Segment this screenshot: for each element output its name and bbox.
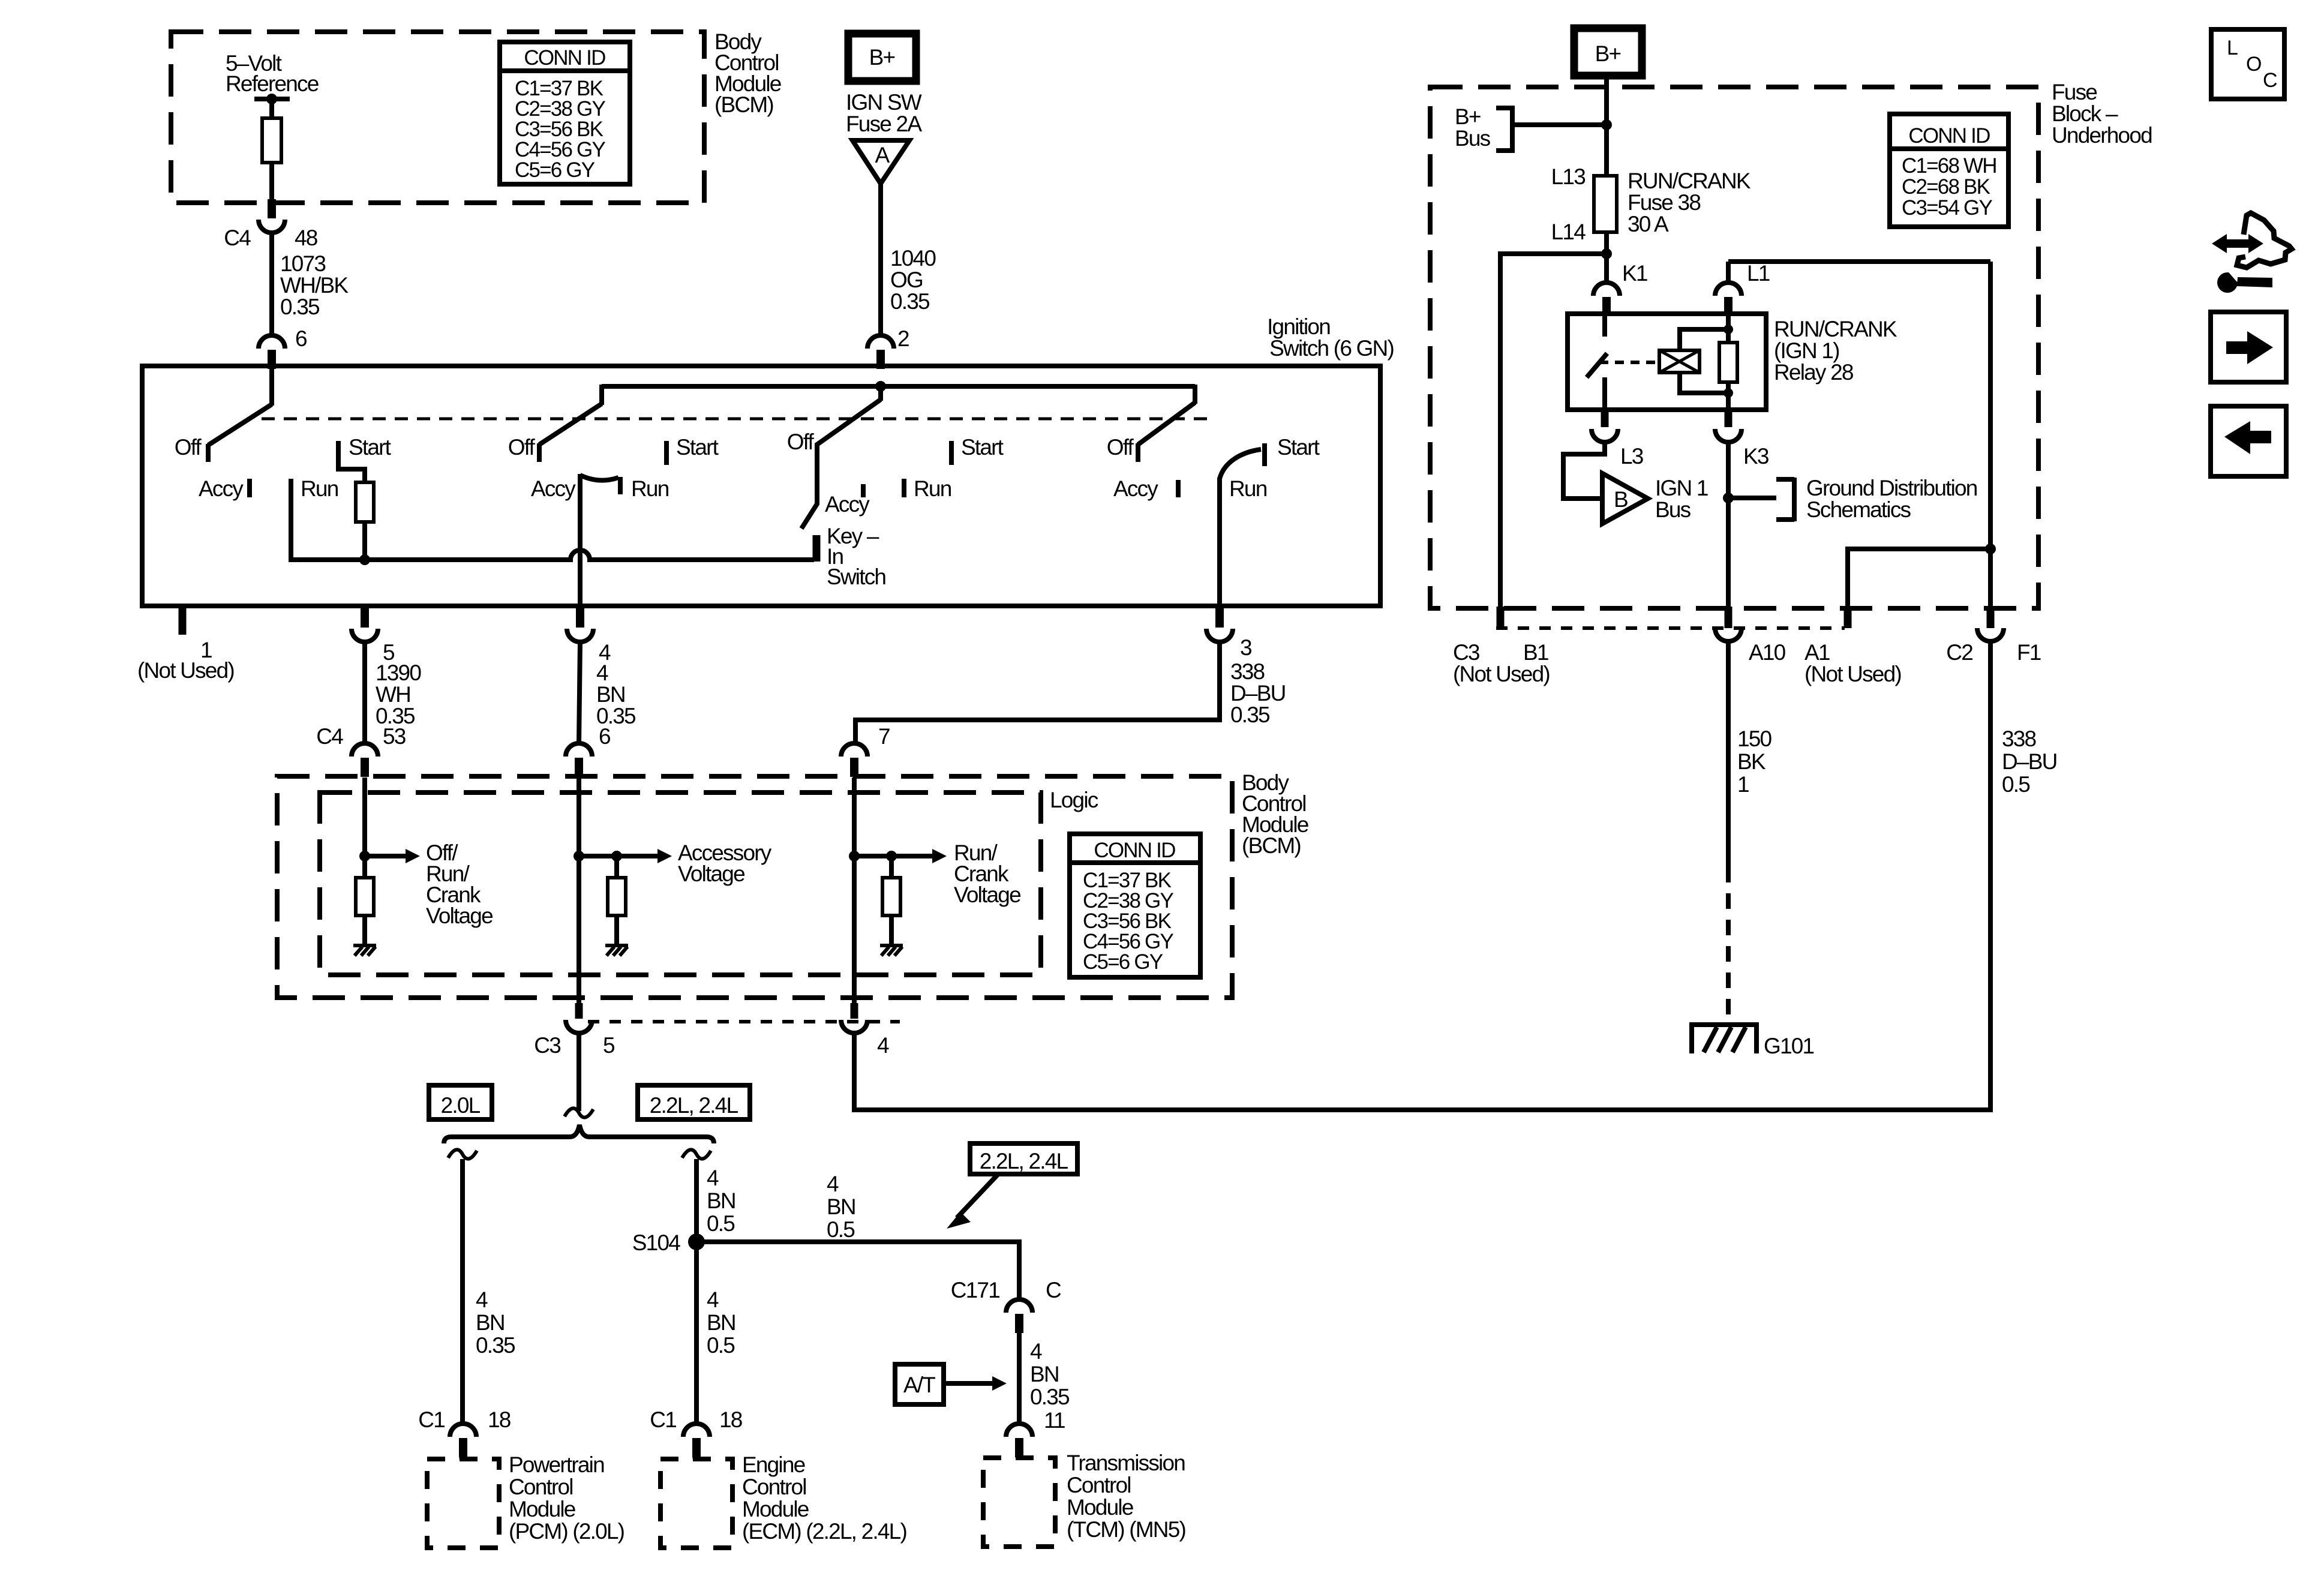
wire K3 to ground distribution flag <box>1728 496 1776 500</box>
wire 4 BN 0.5 to ECM <box>694 1242 699 1424</box>
label C2 <box>1946 640 1972 665</box>
svg-text:Bus: Bus <box>1655 497 1691 522</box>
label C1 / 18 ECM <box>650 1407 741 1432</box>
arrow off/run/crank voltage <box>365 849 420 863</box>
svg-text:4: 4 <box>1030 1339 1042 1364</box>
label Start bank2 <box>676 435 719 460</box>
module box: Transmission Control Module (TCM) (dashed) <box>983 1458 1055 1547</box>
svg-text:11: 11 <box>1044 1408 1065 1433</box>
svg-text:C1: C1 <box>650 1407 676 1432</box>
svg-text:1: 1 <box>1737 772 1749 797</box>
label Off bank1 <box>175 435 202 460</box>
label RUN/CRANK Fuse 38 30 A <box>1628 169 1751 236</box>
connector BCM pin 6 <box>566 743 592 792</box>
svg-text:Voltage: Voltage <box>678 861 744 886</box>
label Fuse Block - Underhood <box>2052 80 2152 148</box>
svg-text:Fuse 2A: Fuse 2A <box>846 112 922 136</box>
svg-text:Transmission: Transmission <box>1067 1451 1185 1475</box>
svg-text:Bus: Bus <box>1455 126 1491 151</box>
label L13 <box>1551 164 1586 189</box>
switch pole bank2 with wiper arc to Run <box>580 474 618 606</box>
wire 4 BN 0.35 to PCM <box>460 1159 465 1424</box>
connector: ignition pin 5 <box>352 608 378 642</box>
svg-text:Run: Run <box>1229 476 1267 501</box>
contact stub Accy bank5 <box>1176 480 1181 497</box>
label Run bank1 <box>301 476 338 501</box>
wire 1390 WH 0.35 <box>362 642 367 744</box>
power symbol B+ (ignition feed) <box>848 34 916 81</box>
relay resistor (parallel) <box>1719 315 1737 410</box>
svg-text:0.5: 0.5 <box>707 1211 735 1236</box>
svg-text:CONN ID: CONN ID <box>524 46 605 70</box>
label pin 4 <box>599 640 611 665</box>
svg-text:2.2L, 2.4L: 2.2L, 2.4L <box>980 1149 1068 1173</box>
svg-text:K1: K1 <box>1622 261 1647 286</box>
svg-text:Accy: Accy <box>531 476 576 501</box>
connector: ignition switch pin 6 <box>259 335 285 369</box>
svg-text:C3: C3 <box>1453 640 1479 665</box>
label Off/Run/Crank Voltage <box>426 840 493 928</box>
brace split to PCM/ECM <box>444 1125 714 1143</box>
wire 4 BN 0.5 to S104 <box>694 1159 699 1242</box>
wire run bus to key-in switch (hop over bank2 pole) <box>291 550 814 560</box>
wire to ground branch1 <box>362 915 367 945</box>
fuse A: IGN SW Fuse 2A (triangle) <box>852 140 909 184</box>
svg-text:IGN 1: IGN 1 <box>1655 476 1708 500</box>
label Run bank2 <box>631 476 669 501</box>
label Engine Control Module (ECM) (2.2L, 2.4L) <box>742 1452 906 1544</box>
svg-text:WH/BK: WH/BK <box>280 273 349 298</box>
svg-text:C2=68 BK: C2=68 BK <box>1902 175 1990 199</box>
svg-text:BN: BN <box>707 1310 735 1335</box>
label Accy bank5 <box>1113 476 1158 501</box>
svg-text:Run: Run <box>301 476 338 501</box>
connector C1 pin 18 (ECM) <box>683 1424 710 1459</box>
contact stub Start bank5 <box>1262 443 1267 466</box>
svg-text:BN: BN <box>476 1310 505 1335</box>
wire Run contact bank1 <box>289 479 293 562</box>
module box: Body Control Module (BCM) top-left (dashed) <box>171 32 704 203</box>
label pin 7 BCM <box>878 724 890 749</box>
label C3 / 5 <box>534 1033 615 1058</box>
label A10 <box>1749 640 1786 665</box>
svg-text:6: 6 <box>599 724 610 749</box>
svg-text:Fuse: Fuse <box>2052 80 2097 104</box>
label Start bank4 <box>961 435 1004 460</box>
label Powertrain Control Module (PCM) (2.0L) <box>509 1452 624 1544</box>
svg-text:53: 53 <box>383 724 406 749</box>
svg-text:BN: BN <box>596 682 625 707</box>
connector C3 pin 5 (BCM bottom) <box>566 975 592 1033</box>
svg-text:(PCM) (2.0L): (PCM) (2.0L) <box>509 1519 624 1544</box>
contact stub Accy bank3 <box>861 484 866 497</box>
contact stub Key-In <box>813 535 821 562</box>
svg-text:C: C <box>1046 1278 1061 1302</box>
label wire 4 BN 0.5 upper <box>707 1166 735 1236</box>
label Off bank5 <box>1107 435 1134 460</box>
label pin 6 <box>295 326 307 351</box>
label A1 (Not Used) <box>1804 640 1901 686</box>
flag bracket ground distribution <box>1776 478 1794 521</box>
splice S104 <box>688 1233 705 1250</box>
svg-text:F1: F1 <box>2017 640 2041 665</box>
label pin 5 <box>383 640 395 665</box>
wire Start elbow to resistor <box>338 465 365 482</box>
label wire 338 D-BU 0.5 <box>2002 727 2057 797</box>
connector K1 (relay) <box>1593 269 1620 316</box>
svg-text:338: 338 <box>1230 659 1265 684</box>
label Logic <box>1050 788 1098 812</box>
svg-text:A/T: A/T <box>903 1373 935 1397</box>
svg-text:Run: Run <box>914 476 951 501</box>
arrow run/crank voltage <box>891 849 947 863</box>
svg-text:O: O <box>2246 53 2261 76</box>
wire S104 to C171 <box>696 1242 1019 1299</box>
svg-text:(BCM): (BCM) <box>714 92 773 117</box>
svg-text:Fuse 38: Fuse 38 <box>1628 190 1700 215</box>
label wire 4 BN 0.35 PCM <box>476 1287 515 1358</box>
svg-text:Powertrain: Powertrain <box>509 1452 604 1477</box>
svg-text:0.35: 0.35 <box>476 1333 515 1358</box>
svg-text:Module: Module <box>742 1497 809 1521</box>
svg-text:Off: Off <box>508 435 536 460</box>
label C1 / 18 PCM <box>418 1407 510 1432</box>
wire 150 BK 1 to G101 <box>1726 641 1731 1021</box>
module box: Body Control Module (BCM) outer (dashed) <box>277 776 1232 998</box>
svg-text:L: L <box>2227 37 2238 59</box>
svg-text:B+: B+ <box>1455 104 1481 129</box>
label wire 338 D-BU 0.35 <box>1230 659 1286 727</box>
svg-text:7: 7 <box>878 724 890 749</box>
power symbol B+ (fuse block feed) <box>1574 28 1642 76</box>
label wire 4 BN 0.35 <box>596 661 636 728</box>
wire 4 BN 0.35 (accessory) <box>579 642 580 744</box>
icon hotlink (arrow, outline, wrench) <box>2212 213 2292 293</box>
label Accy bank2 <box>531 476 576 501</box>
svg-text:C5=6 GY: C5=6 GY <box>1083 950 1163 974</box>
svg-text:RUN/CRANK: RUN/CRANK <box>1774 317 1897 341</box>
connector C1 pin 18 (PCM) <box>450 1424 476 1459</box>
component box: RUN/CRANK (IGN 1) Relay 28 <box>1568 314 1766 410</box>
ground symbol branch3 <box>880 945 903 956</box>
wire B+ into fuse block <box>1604 76 1609 176</box>
squiggle break left branch <box>448 1149 477 1158</box>
svg-text:1073: 1073 <box>280 251 325 276</box>
conn-id table (BCM): CONN ID C1=37 BK C2=38 GY C3=56 BK C4=56 GY C5=6 GY <box>500 42 630 184</box>
svg-text:BN: BN <box>1030 1362 1059 1386</box>
svg-text:BN: BN <box>827 1194 855 1219</box>
switch pole bank5 with wiper arc to Start <box>1220 449 1261 606</box>
svg-text:CONN ID: CONN ID <box>1094 839 1175 862</box>
label 1 (Not Used) <box>137 638 234 683</box>
squiggle break right branch <box>682 1149 711 1158</box>
label box 2.0L <box>429 1085 492 1119</box>
svg-text:2: 2 <box>897 326 909 351</box>
label F1 <box>2017 640 2041 665</box>
label wire 4 BN 0.35 TCM <box>1030 1339 1070 1409</box>
module box: Engine Control Module (ECM) (dashed) <box>660 1459 732 1548</box>
svg-text:C1=68 WH: C1=68 WH <box>1902 154 1996 178</box>
label L1 <box>1747 261 1770 286</box>
svg-text:L14: L14 <box>1551 220 1586 244</box>
label Accy bank3 <box>825 492 870 517</box>
label 48 <box>295 226 317 250</box>
connector A10 <box>1715 607 1742 641</box>
icon box LOC <box>2211 29 2284 99</box>
resistor logic branch1 <box>356 878 374 915</box>
svg-text:B+: B+ <box>1595 41 1621 66</box>
label pin 6 BCM <box>599 724 610 749</box>
relay coil wiring <box>1680 325 1733 398</box>
arrow accessory voltage <box>617 849 672 863</box>
contact stub Start bank2 <box>664 441 669 465</box>
label C4 / 53 <box>316 724 405 749</box>
wire L3 to IGN1 bus flag <box>1563 442 1605 499</box>
svg-text:Control: Control <box>742 1475 806 1499</box>
label Key-In Switch <box>827 524 885 589</box>
icon box forward arrow <box>2211 312 2286 382</box>
wire branch run/crank <box>849 780 860 977</box>
contact stub Start bank4 <box>949 441 954 465</box>
label wire 150 BK 1 <box>1737 727 1772 797</box>
label L14 <box>1551 220 1586 244</box>
svg-text:Logic: Logic <box>1050 788 1098 812</box>
svg-text:(IGN 1): (IGN 1) <box>1774 338 1839 363</box>
label K1 <box>1622 261 1647 286</box>
label Start bank5 <box>1277 435 1320 460</box>
label Run bank4 <box>914 476 951 501</box>
wire 1040 OG 0.35 <box>878 184 883 335</box>
svg-text:Start: Start <box>676 435 719 460</box>
label S104 <box>632 1230 680 1255</box>
squiggle break at split <box>565 1108 593 1117</box>
label L3 <box>1620 444 1643 469</box>
wire from R1 to BCM edge <box>269 163 274 203</box>
svg-text:OG: OG <box>890 268 923 292</box>
label Run/Crank Voltage <box>954 840 1020 907</box>
connector C4 pin 48 (BCM) <box>259 199 285 233</box>
svg-text:3: 3 <box>1240 635 1251 660</box>
label Transmission Control Module (TCM) (MN5) <box>1067 1451 1186 1542</box>
svg-text:0.35: 0.35 <box>280 295 320 319</box>
svg-text:4: 4 <box>596 661 608 685</box>
svg-text:0.35: 0.35 <box>1230 703 1270 727</box>
svg-text:RUN/CRANK: RUN/CRANK <box>1628 169 1751 193</box>
svg-text:1040: 1040 <box>890 246 936 271</box>
label pin 11 <box>1044 1408 1065 1433</box>
svg-text:A1: A1 <box>1804 640 1830 665</box>
connector K3 (relay) <box>1715 410 1742 442</box>
svg-text:Switch (6 GN): Switch (6 GN) <box>1269 336 1394 361</box>
svg-text:Off: Off <box>175 435 202 460</box>
label wire 4 BN 0.5 lower <box>707 1287 735 1358</box>
svg-text:(Not Used): (Not Used) <box>137 658 234 683</box>
svg-text:C4: C4 <box>316 724 343 749</box>
label box 2.2L, 2.4L <box>638 1085 750 1119</box>
wire pin6 into switch <box>269 369 274 406</box>
svg-text:Start: Start <box>1277 435 1320 460</box>
label IGN SW Fuse 2A <box>846 90 922 136</box>
label RUN/CRANK (IGN 1) Relay 28 <box>1774 317 1897 385</box>
wire 338 D-BU 0.35 to BCM pin7 <box>855 642 1220 744</box>
svg-text:Start: Start <box>961 435 1004 460</box>
svg-text:Relay 28: Relay 28 <box>1774 360 1853 385</box>
svg-text:338: 338 <box>2002 727 2036 751</box>
dotted connector line fuse block bottom <box>1496 626 1845 630</box>
stub pin 1 (not used) <box>179 607 187 635</box>
bus bracket B+ Bus <box>1496 108 1512 151</box>
svg-text:K3: K3 <box>1743 444 1768 469</box>
label Ground Distribution Schematics <box>1806 476 1977 522</box>
ground symbol branch2 <box>605 945 628 956</box>
svg-text:WH: WH <box>376 682 410 707</box>
svg-text:S104: S104 <box>632 1230 680 1255</box>
svg-text:BN: BN <box>707 1188 735 1213</box>
label wire 1040 OG 0.35 <box>890 246 936 314</box>
label G101 <box>1764 1034 1814 1058</box>
label Body Control Module (BCM) top <box>714 29 781 117</box>
svg-text:18: 18 <box>719 1407 742 1432</box>
svg-text:18: 18 <box>488 1407 511 1432</box>
svg-text:C4: C4 <box>224 226 251 250</box>
contact stub Accy bank1 <box>247 479 252 497</box>
svg-text:0.5: 0.5 <box>827 1217 855 1242</box>
svg-text:B1: B1 <box>1523 640 1548 665</box>
svg-text:Off: Off <box>787 430 815 454</box>
fuse 38 RUN/CRANK 30A <box>1594 176 1617 232</box>
component box: Ignition Switch (6 GN) <box>142 366 1380 606</box>
svg-text:Underhood: Underhood <box>2052 123 2152 148</box>
tap wire to resistor branch2 <box>579 851 622 878</box>
connector: ignition pin 3 <box>1206 608 1233 642</box>
resistor logic branch2 <box>608 878 626 915</box>
svg-text:4: 4 <box>877 1033 889 1058</box>
label IGN 1 Bus <box>1655 476 1708 522</box>
contact stub Start bank1 <box>336 441 341 465</box>
dotted connector line BCM bottom <box>588 1020 900 1023</box>
flag triangle B: IGN 1 Bus <box>1602 473 1648 524</box>
svg-text:Module: Module <box>1067 1495 1133 1520</box>
svg-text:Reference: Reference <box>226 71 319 96</box>
connector BCM pin 7 <box>841 743 867 792</box>
relay coil (IGN 1) <box>1659 350 1700 373</box>
svg-text:Accy: Accy <box>199 476 244 501</box>
dashed gang line inside ignition switch <box>262 418 1212 421</box>
conn-id table (fuse block) <box>1890 114 2008 227</box>
label pin 3 <box>1240 635 1251 660</box>
svg-text:D–BU: D–BU <box>1230 681 1286 706</box>
svg-text:Ignition: Ignition <box>1267 314 1330 339</box>
wire 4 BN 0.35 to TCM <box>1017 1333 1022 1424</box>
svg-text:Ground Distribution: Ground Distribution <box>1806 476 1977 500</box>
svg-text:5: 5 <box>603 1033 615 1058</box>
svg-text:1390: 1390 <box>376 661 421 685</box>
wire A1 jog (not used) <box>1848 544 1996 608</box>
label C171 / C <box>951 1278 1061 1302</box>
svg-text:2.0L: 2.0L <box>441 1093 481 1118</box>
wire 1073 WH/BK 0.35 <box>269 233 274 335</box>
label C3 B1 (Not Used) <box>1453 640 1550 686</box>
svg-text:L3: L3 <box>1620 444 1643 469</box>
label wire 4 BN 0.5 horizontal <box>827 1172 855 1242</box>
svg-text:C3: C3 <box>534 1033 560 1058</box>
svg-text:Voltage: Voltage <box>426 903 493 928</box>
svg-text:(BCM): (BCM) <box>1242 833 1301 858</box>
relay switch contact (K1-K3) <box>1587 315 1607 410</box>
connector F1 / C2 <box>1977 262 2004 641</box>
wire junction to C3 (not used) <box>1500 254 1607 608</box>
wire C3-5 down to engine split <box>577 1033 581 1111</box>
label box A/T with arrow <box>895 1364 1007 1404</box>
ground symbol branch1 <box>353 945 376 956</box>
svg-text:Module: Module <box>509 1497 575 1521</box>
svg-text:L1: L1 <box>1747 261 1770 286</box>
connector: ignition pin 4 <box>567 608 593 642</box>
switch wiper bank3 (Off) and key-in arm <box>801 400 881 529</box>
svg-text:C1: C1 <box>418 1407 445 1432</box>
wire pin2 to bank3 wiper <box>878 386 883 401</box>
connector: ignition switch pin 2 <box>867 335 894 369</box>
svg-text:Control: Control <box>1067 1473 1131 1497</box>
svg-text:(Not Used): (Not Used) <box>1453 662 1550 686</box>
node: 5-volt reference tap bar with junction dot <box>254 94 290 118</box>
module box: Powertrain Control Module (PCM) (dashed) <box>427 1459 499 1548</box>
svg-text:Switch: Switch <box>827 565 885 589</box>
resistor bank1 (bypass) <box>356 482 374 522</box>
module box: BCM Logic (dashed) <box>320 792 1041 975</box>
svg-text:C171: C171 <box>951 1278 999 1302</box>
label Run bank5 <box>1229 476 1267 501</box>
connector L3 (relay) <box>1592 410 1618 442</box>
svg-text:CONN ID: CONN ID <box>1908 124 1990 148</box>
svg-text:Accy: Accy <box>1113 476 1158 501</box>
svg-text:C5=6 GY: C5=6 GY <box>515 158 595 182</box>
svg-text:Engine: Engine <box>742 1452 805 1477</box>
svg-text:D–BU: D–BU <box>2002 749 2057 774</box>
svg-text:4: 4 <box>827 1172 839 1196</box>
wire resistor to run bus <box>359 522 370 565</box>
wire fuse to K1 junction <box>1601 232 1612 269</box>
label K3 <box>1743 444 1768 469</box>
svg-text:0.35: 0.35 <box>890 289 930 314</box>
module box: Fuse Block - Underhood (dashed) <box>1430 87 2038 608</box>
wire BCM pin4 to F1 (338 D-BU 0.5 run) <box>854 641 1990 1110</box>
label wire 1390 WH 0.35 <box>376 661 421 728</box>
svg-text:(ECM) (2.2L, 2.4L): (ECM) (2.2L, 2.4L) <box>742 1519 906 1544</box>
wire L1 to F1 rail <box>1728 259 1990 264</box>
resistor logic branch3 <box>882 878 900 915</box>
label Start bank1 <box>349 435 392 460</box>
svg-text:BK: BK <box>1737 749 1766 774</box>
svg-text:C3=54 GY: C3=54 GY <box>1902 196 1992 220</box>
connector L1 (relay) <box>1715 262 1742 316</box>
contact stub Run bank2 <box>618 477 623 494</box>
svg-text:6: 6 <box>295 326 307 351</box>
label Accy bank1 <box>199 476 244 501</box>
connector C4 pin 53 (BCM) <box>352 743 378 792</box>
label 5-Volt Reference <box>226 51 319 96</box>
conn-id table (BCM logic) <box>1070 834 1200 977</box>
svg-text:0.5: 0.5 <box>2002 772 2030 797</box>
svg-text:48: 48 <box>295 226 317 250</box>
tap wire to resistor branch3 <box>854 851 897 878</box>
svg-text:G101: G101 <box>1764 1034 1814 1058</box>
svg-text:B: B <box>1614 487 1628 512</box>
svg-text:Run: Run <box>631 476 669 501</box>
svg-text:Schematics: Schematics <box>1806 497 1911 522</box>
wire to ground branch2 <box>614 915 619 945</box>
relay coil link (dashed) <box>1599 361 1656 364</box>
